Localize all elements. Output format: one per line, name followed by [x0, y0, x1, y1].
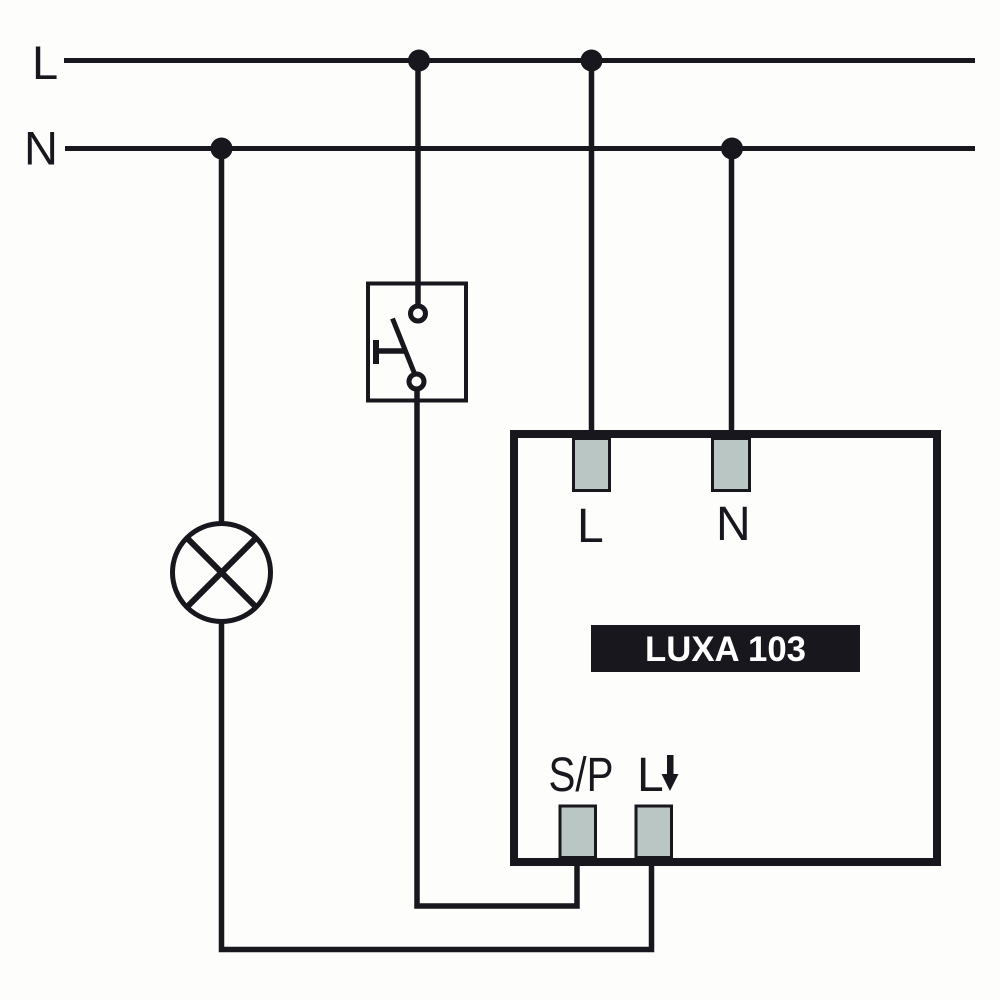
device U1 LUXA 103 box [514, 434, 937, 862]
terminal S/P (bottom) [560, 806, 596, 858]
terminal L (top) [574, 439, 610, 491]
svg-text:S/P: S/P [549, 749, 614, 802]
svg-text:L: L [577, 500, 604, 553]
wire from N junction down to lamp [219, 149, 225, 525]
wire from L junction down to switch [415, 61, 421, 305]
svg-text:N: N [716, 498, 751, 551]
lamp E1 [173, 524, 271, 622]
node junction on L at device L branch [581, 50, 603, 72]
terminal N (top) [713, 439, 750, 491]
switch S1 push-button [368, 284, 466, 401]
node junction on N at lamp branch [211, 138, 233, 160]
node junction on N at device N branch [721, 138, 743, 160]
svg-text:L: L [637, 749, 664, 802]
svg-text:N: N [24, 122, 58, 175]
svg-text:LUXA 103: LUXA 103 [645, 630, 806, 669]
pin label L-out with arrow [637, 749, 679, 802]
svg-text:L: L [32, 36, 58, 89]
wire L line [64, 58, 975, 63]
node junction on L at switch branch [408, 50, 430, 72]
wire from L junction down to device terminal L [589, 61, 595, 441]
device nameplate LUXA 103 [591, 625, 860, 672]
wire N line [65, 146, 975, 151]
wire from N junction down to device terminal N [729, 149, 735, 441]
wire from lamp to L-out terminal [222, 622, 652, 950]
wire from switch to S/P terminal [417, 389, 577, 906]
terminal L-out (bottom) [636, 806, 672, 858]
